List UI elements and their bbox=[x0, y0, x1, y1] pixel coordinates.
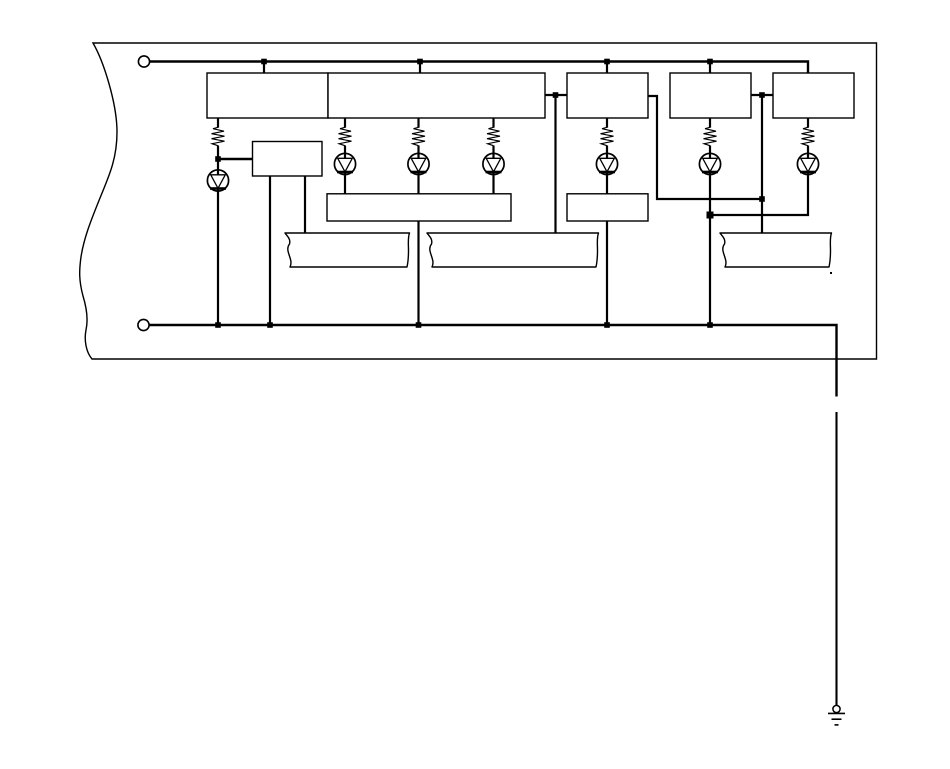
box U4 (gauge unit 4) bbox=[670, 73, 751, 118]
wire: U2 to resistor R4 bbox=[492, 118, 494, 128]
wire: R4 to LED D4 bbox=[492, 146, 494, 154]
resistor R6 bbox=[704, 127, 717, 145]
wire: U3 to resistor R5 bbox=[606, 118, 608, 128]
junction: ground bus / B2 bbox=[604, 322, 610, 328]
wire: U2-U3 link bbox=[545, 94, 567, 96]
wire: U5 to resistor R7 bbox=[807, 118, 809, 128]
wire: R1 to LED D1 bbox=[217, 146, 219, 171]
box S1 (sender, torn) bbox=[285, 233, 410, 267]
wire: R2 to LED D2 bbox=[344, 146, 346, 154]
box U2 (gauge unit 2) bbox=[328, 73, 545, 118]
wire: tap down to sender S3 bbox=[761, 95, 763, 233]
junction: U2-U3 link tap bbox=[553, 92, 559, 98]
box S3 (sender, torn) bbox=[720, 233, 832, 267]
junction node N1 bbox=[759, 196, 765, 202]
LED D7 bbox=[797, 153, 818, 175]
junction: ground bus / B1 bbox=[416, 322, 422, 328]
ground G1 bbox=[828, 705, 845, 725]
wire: U4 to resistor R6 bbox=[709, 118, 711, 128]
wire: U3 to node N1 bbox=[648, 96, 761, 199]
wire: K1 to sender S1 bbox=[304, 176, 306, 233]
box U3 (gauge unit 3) bbox=[567, 73, 648, 118]
wire: ground lead to G1 bbox=[835, 412, 837, 706]
wire: bus drop to box U3 bbox=[606, 62, 608, 74]
LED D1 bbox=[207, 170, 228, 192]
LED D4 bbox=[483, 153, 504, 175]
box B2 (printed circuit board) bbox=[567, 194, 648, 221]
wire: U4-U5 link bbox=[751, 94, 773, 96]
LED D6 bbox=[699, 153, 720, 175]
wire: bus drop to box U4 bbox=[709, 62, 711, 74]
junction: bus / U1 drop bbox=[261, 59, 267, 65]
box U1 (gauge unit 1) bbox=[207, 73, 328, 118]
junction: ground bus / D6 bbox=[707, 322, 713, 328]
junction: D7/D6 branch tie bbox=[707, 212, 714, 219]
resistor R4 bbox=[487, 127, 500, 145]
terminal T2 (ground output) bbox=[138, 319, 149, 330]
wire: D4 to box B1 bbox=[492, 176, 494, 194]
stray mark bbox=[830, 272, 832, 274]
wire: K1 to ground bus bbox=[269, 176, 271, 325]
resistor R5 bbox=[601, 127, 614, 145]
gauge assembly outline (torn left edge) bbox=[80, 43, 877, 359]
wire: U2 to resistor R2 bbox=[344, 118, 346, 128]
junction: R1 / relay box tap bbox=[215, 156, 221, 162]
junction: U4-U5 link tap bbox=[759, 92, 765, 98]
LED D3 bbox=[408, 153, 429, 175]
resistor R1 bbox=[212, 127, 225, 145]
wire: D3 to box B1 bbox=[417, 176, 419, 194]
LED D2 bbox=[334, 153, 355, 175]
junction: ground bus / K1 bbox=[267, 322, 273, 328]
wire: R3 to LED D3 bbox=[417, 146, 419, 154]
wire: tap down to sender S2 bbox=[554, 95, 556, 233]
wire: top supply bus bbox=[150, 62, 808, 74]
wire: D1 to ground bus bbox=[217, 192, 219, 326]
wire: D2 to box B1 bbox=[344, 176, 346, 194]
LED D5 bbox=[596, 153, 617, 175]
box B1 (printed circuit board) bbox=[327, 194, 511, 221]
wire: U1 to resistor R1 bbox=[217, 118, 219, 128]
junction: bus / U2 drop bbox=[417, 59, 423, 65]
resistor R7 bbox=[802, 127, 815, 145]
junction: bus / U4 drop bbox=[707, 59, 713, 65]
wire: ground bus bbox=[150, 325, 837, 397]
wire: bus drop to box U2 bbox=[419, 62, 421, 74]
wire: D6 to ground bus bbox=[709, 176, 711, 326]
wire: R7 to LED D7 bbox=[807, 146, 809, 154]
resistor R3 bbox=[412, 127, 425, 145]
wire: D5 to box B2 bbox=[606, 176, 608, 194]
wire: tap to relay box K1 bbox=[218, 158, 253, 160]
box S2 (sender, torn) bbox=[427, 233, 599, 267]
wire: R5 to LED D5 bbox=[606, 146, 608, 154]
box U5 (gauge unit 5) bbox=[773, 73, 854, 118]
wire: D7 joining D6 branch bbox=[710, 176, 808, 216]
wire: B2 to ground bus bbox=[606, 221, 608, 325]
junction: ground bus / D1 bbox=[215, 322, 221, 328]
wire: U2 to resistor R3 bbox=[417, 118, 419, 128]
wire: bus drop to box U1 bbox=[263, 62, 265, 74]
wire: R6 to LED D6 bbox=[709, 146, 711, 154]
box K1 (relay) bbox=[253, 142, 323, 177]
junction: bus / U3 drop bbox=[604, 59, 610, 65]
resistor R2 bbox=[339, 127, 352, 145]
wire: B1 to ground bus bbox=[417, 221, 419, 325]
terminal T1 (top power input) bbox=[138, 56, 149, 67]
